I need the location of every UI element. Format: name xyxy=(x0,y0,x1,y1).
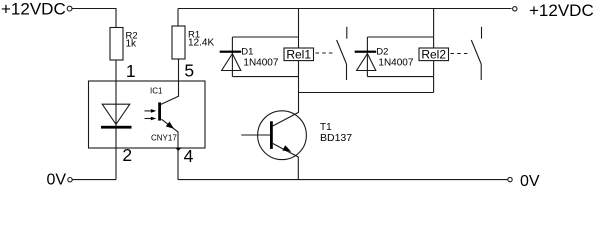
phototransistor emitter arrow xyxy=(166,122,174,129)
svg-text:1k: 1k xyxy=(126,38,138,49)
wire Rel1 coil to T1 collector xyxy=(273,61,299,126)
svg-text:4: 4 xyxy=(184,146,194,166)
optocoupler U1 IC1 package box xyxy=(89,81,206,148)
transistor T1 xyxy=(258,111,307,160)
svg-text:CNY17: CNY17 xyxy=(151,134,177,143)
wire left +12V feed xyxy=(72,9,116,28)
terminal 0V left xyxy=(68,178,72,182)
contact K1 xyxy=(337,27,347,80)
contact K1 dashed actuator xyxy=(316,52,336,54)
LED inside IC1 xyxy=(102,104,130,124)
wire Rel2 to T1 collector node xyxy=(299,92,434,94)
diode D1 xyxy=(220,51,242,53)
wire D2 bottom stub xyxy=(367,76,433,78)
light arrows xyxy=(145,111,152,119)
wire D1 top stub xyxy=(232,36,298,38)
wire R1 drop xyxy=(177,9,179,27)
svg-text:+12VDC: +12VDC xyxy=(529,1,594,20)
relay coil Rel1 xyxy=(284,48,314,61)
relay coil Rel2 xyxy=(419,48,449,61)
svg-text:+12VDC: +12VDC xyxy=(1,0,66,18)
terminal +12VDC right xyxy=(513,7,517,11)
svg-text:12.4K: 12.4K xyxy=(188,37,214,48)
wire T1 base xyxy=(241,134,270,136)
pin 4 junction marker xyxy=(175,148,182,151)
svg-text:1N4007: 1N4007 xyxy=(243,57,278,68)
svg-text:1N4007: 1N4007 xyxy=(378,57,413,68)
svg-text:5: 5 xyxy=(184,61,194,81)
svg-text:BD137: BD137 xyxy=(320,132,352,144)
svg-text:Rel2: Rel2 xyxy=(421,48,446,62)
wire R2 to LED and down to 0V xyxy=(115,60,117,179)
wire D2 top stub xyxy=(367,36,433,38)
svg-text:Rel1: Rel1 xyxy=(286,48,311,62)
wire T1 emitter to 0V xyxy=(273,144,299,180)
wire Rel1 branch from rail xyxy=(298,9,300,49)
svg-text:1: 1 xyxy=(126,61,136,81)
wire pin4 emitter down to 0V xyxy=(161,119,178,179)
svg-text:2: 2 xyxy=(122,145,132,165)
wire bottom right 0V rail xyxy=(178,179,508,181)
svg-text:D1: D1 xyxy=(241,47,253,58)
wire D1 vertical xyxy=(231,37,233,77)
terminal +12VDC left xyxy=(67,6,72,11)
wire left 0V rail xyxy=(73,179,117,181)
terminal 0V right xyxy=(508,177,512,181)
wire Rel2 branch from rail xyxy=(433,9,435,49)
resistor R1 xyxy=(172,26,185,59)
resistor R2 xyxy=(110,28,123,61)
phototransistor base bar xyxy=(158,102,161,120)
contact K2 xyxy=(471,27,481,80)
diode D2 xyxy=(355,51,377,53)
wire R1 to pin5 xyxy=(161,59,179,104)
contact K2 dashed actuator xyxy=(451,53,471,55)
svg-text:0V: 0V xyxy=(47,172,67,189)
wire D1 bottom stub xyxy=(232,76,298,78)
svg-text:D2: D2 xyxy=(376,47,388,58)
wire Rel2 coil down xyxy=(433,61,435,93)
svg-text:IC1: IC1 xyxy=(150,86,163,95)
svg-text:0V: 0V xyxy=(520,173,540,190)
wire D2 vertical xyxy=(366,37,368,77)
wire top main rail xyxy=(178,8,512,10)
